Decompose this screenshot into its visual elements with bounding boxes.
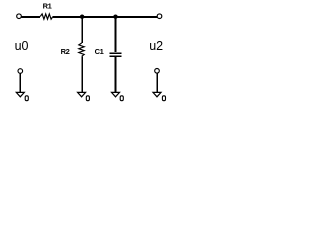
svg-text:R1: R1 — [43, 1, 52, 10]
ground symbol 0 (below R2) — [78, 92, 90, 100]
node junction dot at R2 — [80, 15, 84, 19]
terminal: input node circle (u0) — [17, 14, 22, 19]
svg-text:C1: C1 — [95, 47, 104, 56]
wire: R2 to ground — [81, 56, 83, 92]
terminal: ground reference circle (below output) — [155, 69, 160, 74]
terminal: output node circle (u2) — [157, 14, 162, 19]
wire: R1 to output terminal (top rail) — [53, 16, 157, 18]
wire: input terminal to R1 — [21, 16, 40, 18]
resistor R2 — [61, 43, 85, 56]
wire: junction down to R2 — [81, 17, 83, 43]
capacitor C1 — [95, 17, 122, 56]
wire: C1 to ground — [115, 57, 117, 93]
resistor R1 — [40, 1, 53, 19]
svg-text:u0: u0 — [15, 39, 29, 53]
wire: input ground stem — [19, 73, 21, 92]
svg-text:R2: R2 — [61, 47, 70, 56]
svg-text:u2: u2 — [149, 39, 163, 53]
wire: output ground stem — [156, 73, 158, 92]
terminal: ground reference circle (below input) — [18, 69, 23, 74]
ground symbol 0 (below output terminal) — [153, 92, 166, 100]
ground symbol 0 (below input terminal) — [16, 92, 28, 100]
ground symbol 0 (below C1) — [112, 92, 124, 100]
node junction dot at C1 — [113, 15, 117, 19]
